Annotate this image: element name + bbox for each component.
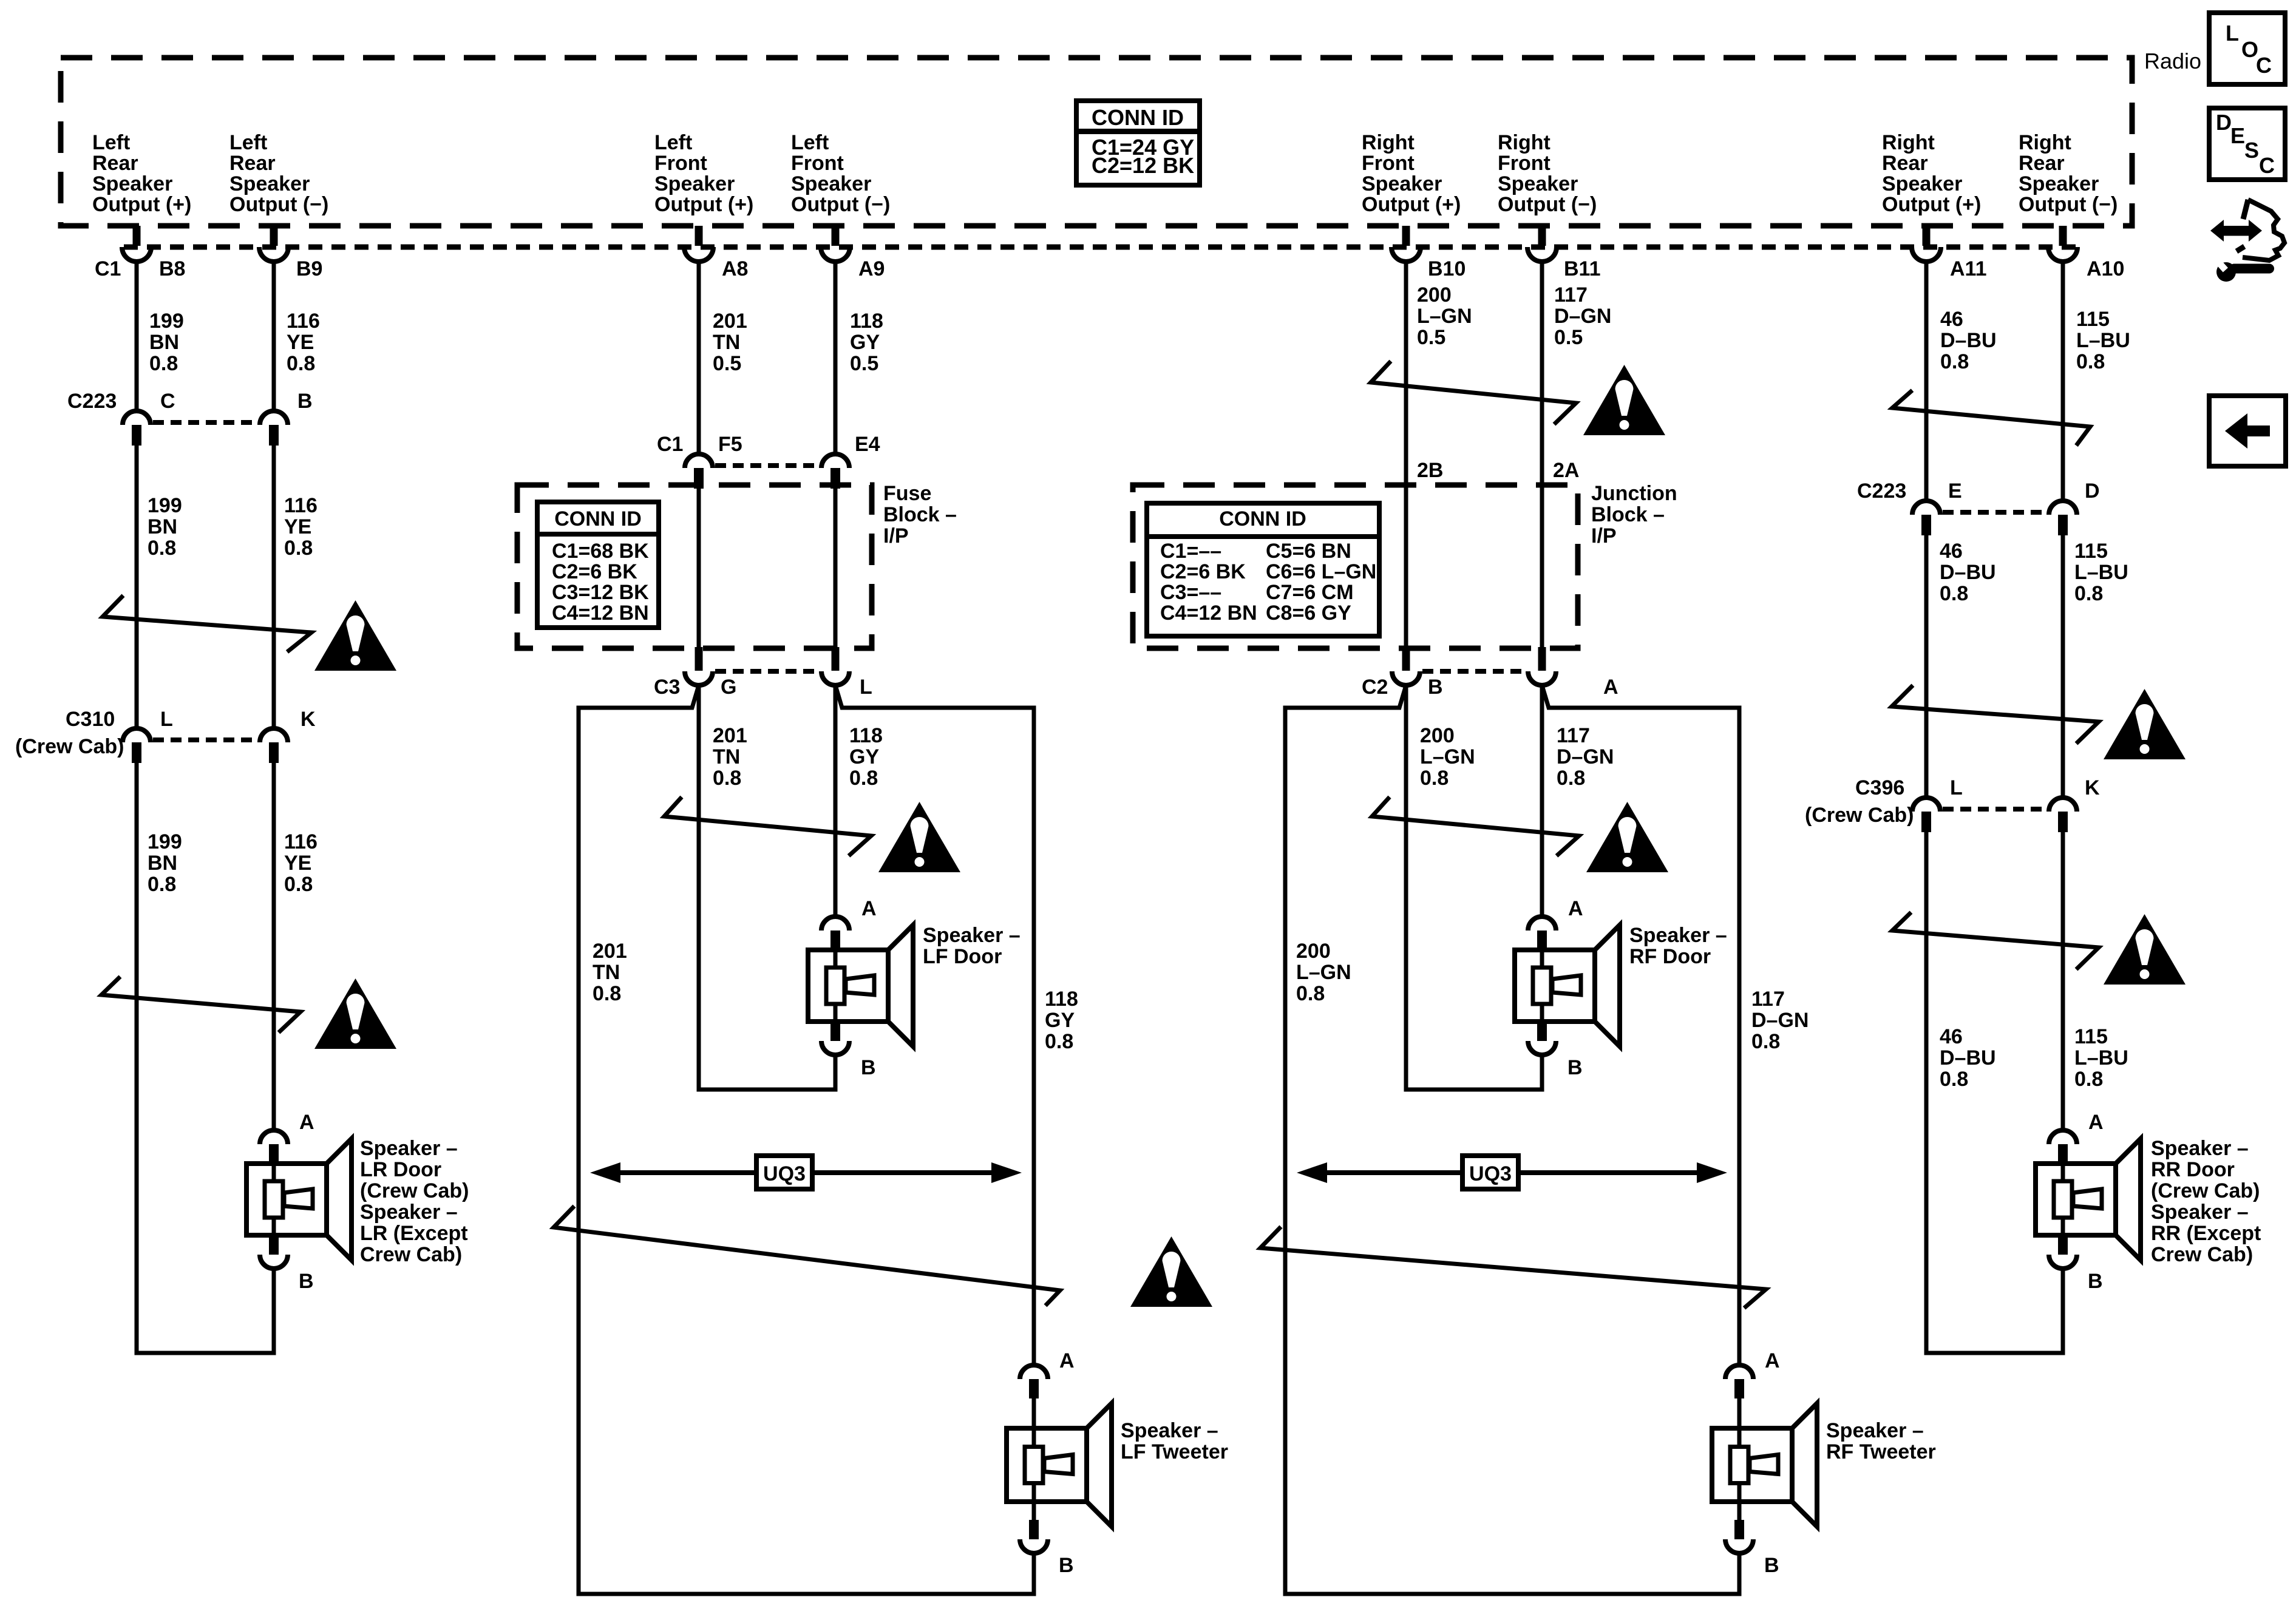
pin letter D bbox=[2085, 480, 2100, 503]
wire label 200 L-GN 0.8 (below junction) bbox=[1420, 724, 1475, 790]
warning triangle (middle bottom) bbox=[1130, 1236, 1212, 1307]
warning triangle (LF column) bbox=[878, 802, 960, 872]
svg-text:117: 117 bbox=[1554, 283, 1588, 307]
radio pin description at x=3173 bbox=[1882, 131, 1981, 216]
wire 46 D-BU (A11) segment 1 bbox=[1924, 262, 1929, 501]
label C310 bbox=[66, 708, 115, 731]
warning triangle (right col lower) bbox=[2104, 914, 2186, 985]
left vertical wire 201 TN branch bbox=[577, 706, 581, 1596]
wire below RF tweeter B bbox=[1737, 1553, 1742, 1594]
svg-text:Block –: Block – bbox=[1591, 503, 1665, 526]
svg-text:C1=––: C1=–– bbox=[1160, 540, 1221, 563]
svg-text:Radio: Radio bbox=[2144, 49, 2201, 73]
speaker RF tweeter text bbox=[1826, 1419, 1936, 1463]
svg-text:F5: F5 bbox=[718, 433, 742, 456]
svg-text:199: 199 bbox=[148, 494, 182, 517]
svg-text:BN: BN bbox=[148, 852, 177, 875]
speaker RF door symbol bbox=[1515, 917, 1620, 1055]
wire 117 D-GN (B11) segment 1 bbox=[1540, 262, 1544, 487]
wire label 200 L-GN 0.5 (B10) bbox=[1417, 283, 1472, 349]
speaker LF door symbol bbox=[808, 917, 913, 1055]
wire 200 L-GN below junction bbox=[1404, 685, 1408, 1090]
svg-text:RF Tweeter: RF Tweeter bbox=[1826, 1440, 1936, 1463]
svg-text:Speaker –: Speaker – bbox=[360, 1137, 458, 1160]
terminal label B (LF door) bbox=[861, 1056, 876, 1079]
svg-text:L–GN: L–GN bbox=[1296, 961, 1351, 984]
svg-text:0.8: 0.8 bbox=[148, 873, 176, 896]
svg-text:Front: Front bbox=[1362, 152, 1415, 175]
svg-text:CONN ID: CONN ID bbox=[1092, 105, 1184, 130]
svg-text:Output (+): Output (+) bbox=[654, 193, 753, 216]
svg-text:C6=6 L–GN: C6=6 L–GN bbox=[1266, 560, 1376, 583]
svg-text:C2: C2 bbox=[1362, 676, 1388, 699]
svg-text:YE: YE bbox=[287, 331, 314, 354]
svg-text:E: E bbox=[1948, 480, 1962, 503]
pin letter C bbox=[160, 390, 175, 413]
svg-text:E4: E4 bbox=[855, 433, 880, 456]
svg-text:0.8: 0.8 bbox=[593, 982, 621, 1005]
svg-text:Speaker –: Speaker – bbox=[1121, 1419, 1218, 1442]
left vertical wire 200 L-GN branch bbox=[1283, 706, 1288, 1596]
svg-text:201: 201 bbox=[593, 940, 627, 963]
svg-text:Left: Left bbox=[92, 131, 130, 154]
radio connector pin B10 bbox=[1391, 226, 1421, 262]
speaker LR text bbox=[360, 1137, 469, 1266]
off-page squiggle (left col lower) bbox=[101, 977, 301, 1032]
pin label B8 bbox=[159, 257, 185, 280]
pin label B10 bbox=[1428, 257, 1466, 280]
svg-text:C3=––: C3=–– bbox=[1160, 581, 1221, 604]
terminal label B (LF tweeter) bbox=[1059, 1554, 1074, 1577]
wire label 116 YE 0.8 (B9 seg1) bbox=[287, 310, 320, 375]
svg-text:2B: 2B bbox=[1417, 459, 1443, 482]
wire below RR speaker B bbox=[2061, 1269, 2065, 1353]
svg-text:B: B bbox=[1059, 1554, 1074, 1577]
wire 200 L-GN (B10) segment 1 bbox=[1404, 262, 1408, 487]
junction bottom connectors (C2: B,A) bbox=[1392, 647, 1556, 685]
svg-text:L–GN: L–GN bbox=[1420, 745, 1475, 768]
wire label 115 L-BU 0.8 (seg2) bbox=[2074, 540, 2128, 605]
wire 46 D-BU segment 2 bbox=[1924, 535, 1929, 798]
svg-text:Right: Right bbox=[1362, 131, 1415, 154]
svg-text:2A: 2A bbox=[1553, 459, 1579, 482]
svg-text:46: 46 bbox=[1940, 308, 1963, 331]
svg-text:0.8: 0.8 bbox=[1420, 767, 1449, 790]
svg-text:Rear: Rear bbox=[2019, 152, 2065, 175]
svg-text:0.5: 0.5 bbox=[850, 352, 878, 375]
svg-text:A: A bbox=[2088, 1111, 2104, 1134]
svg-text:UQ3: UQ3 bbox=[763, 1162, 806, 1185]
svg-text:Front: Front bbox=[654, 152, 707, 175]
svg-text:C7=6 CM: C7=6 CM bbox=[1266, 581, 1354, 604]
svg-text:C1: C1 bbox=[657, 433, 683, 456]
svg-text:I/P: I/P bbox=[883, 524, 909, 547]
pin letter L (C310) bbox=[160, 708, 173, 731]
svg-text:B9: B9 bbox=[296, 257, 322, 280]
svg-text:Speaker: Speaker bbox=[1498, 172, 1578, 195]
radio pin description at x=1376 bbox=[791, 131, 890, 216]
label C3 (fuse bottom) bbox=[654, 676, 680, 699]
svg-text:Speaker: Speaker bbox=[92, 172, 172, 195]
wire below LF door B bbox=[834, 1055, 838, 1090]
svg-text:201: 201 bbox=[713, 310, 747, 333]
svg-text:Output (+): Output (+) bbox=[1362, 193, 1461, 216]
wire 116 YE segment 2 bbox=[272, 446, 276, 728]
fuse block top connectors (C1: F5,E4) bbox=[685, 454, 849, 489]
label C2 (junction bottom) bbox=[1362, 676, 1388, 699]
svg-text:L–GN: L–GN bbox=[1417, 305, 1472, 328]
svg-text:118: 118 bbox=[849, 724, 883, 747]
svg-text:LR Door: LR Door bbox=[360, 1158, 441, 1181]
fuse CONN ID table bbox=[537, 502, 659, 628]
svg-text:Speaker: Speaker bbox=[1362, 172, 1442, 195]
speaker RR door symbol bbox=[2036, 1130, 2141, 1269]
wire 201 TN (A8) segment 1 bbox=[697, 262, 701, 454]
off-page squiggle (right col mid) bbox=[1892, 685, 2099, 744]
wire 199 BN segment 2 bbox=[135, 446, 139, 728]
svg-text:Fuse: Fuse bbox=[883, 482, 931, 505]
radio connector pin A11 bbox=[1912, 226, 1941, 262]
svg-text:C4=12 BN: C4=12 BN bbox=[552, 602, 649, 625]
svg-text:0.8: 0.8 bbox=[713, 767, 741, 790]
svg-text:118: 118 bbox=[850, 310, 883, 333]
svg-text:TN: TN bbox=[713, 331, 740, 354]
pin letter K (C310) bbox=[301, 708, 316, 731]
bottom loop wire (LR) bbox=[135, 1351, 276, 1355]
wire label 201 TN 0.5 (A8) bbox=[713, 310, 747, 375]
wire label 200 L-GN 0.8 (left vertical) bbox=[1296, 940, 1351, 1005]
svg-text:D–BU: D–BU bbox=[1940, 329, 1997, 352]
branch L to right vertical bbox=[835, 685, 1034, 708]
svg-text:C1: C1 bbox=[95, 257, 121, 280]
wire 116 YE (B9) segment 1 bbox=[272, 262, 276, 411]
wire 199 BN segment 3 bbox=[135, 763, 139, 1353]
svg-text:CONN ID: CONN ID bbox=[1219, 507, 1306, 531]
svg-text:A: A bbox=[861, 897, 877, 920]
svg-text:0.8: 0.8 bbox=[1557, 767, 1585, 790]
label (Crew Cab) C396 bbox=[1805, 804, 1914, 827]
pin label A8 bbox=[722, 257, 748, 280]
wire label 46 D-BU 0.8 (seg3) bbox=[1940, 1025, 1996, 1091]
radio box (dashed outline) bbox=[61, 58, 2132, 226]
svg-text:A: A bbox=[1765, 1349, 1780, 1372]
svg-text:UQ3: UQ3 bbox=[1469, 1162, 1512, 1185]
svg-text:Left: Left bbox=[229, 131, 267, 154]
wire label 117 D-GN 0.5 (B11) bbox=[1554, 283, 1611, 349]
wire label 46 D-BU 0.8 (A11 seg1) bbox=[1940, 308, 1997, 373]
speaker RF door text bbox=[1629, 924, 1727, 968]
wire label 117 D-GN 0.8 (right vertical) bbox=[1751, 988, 1809, 1053]
junction CONN ID table bbox=[1147, 503, 1379, 636]
right vertical wire 118 GY branch bbox=[1032, 706, 1036, 1366]
radio pin description at x=2540 bbox=[1498, 131, 1597, 216]
svg-text:TN: TN bbox=[593, 961, 620, 984]
wire label 199 BN 0.8 (seg2) bbox=[148, 494, 182, 560]
svg-text:Speaker –: Speaker – bbox=[1826, 1419, 1924, 1442]
svg-text:Crew Cab): Crew Cab) bbox=[360, 1243, 462, 1266]
svg-text:Speaker –: Speaker – bbox=[1629, 924, 1727, 947]
svg-text:C310: C310 bbox=[66, 708, 115, 731]
pin letter K (C396) bbox=[2085, 776, 2100, 799]
radio connector pin B11 bbox=[1527, 226, 1557, 262]
back-arrow icon box bbox=[2209, 396, 2286, 466]
svg-text:Left: Left bbox=[791, 131, 829, 154]
svg-text:0.8: 0.8 bbox=[2074, 582, 2103, 605]
wire 118 GY below fuse bbox=[834, 685, 838, 917]
off-page squiggle (right col lower) bbox=[1892, 912, 2099, 969]
svg-text:46: 46 bbox=[1940, 540, 1963, 563]
wire below LR speaker B bbox=[272, 1269, 276, 1353]
svg-text:200: 200 bbox=[1420, 724, 1455, 747]
bottom loop wire (RR) bbox=[1924, 1351, 2065, 1355]
terminal label A (RF tweeter) bbox=[1765, 1349, 1780, 1372]
svg-text:C2=6 BK: C2=6 BK bbox=[552, 560, 637, 583]
radio connector id C1 label bbox=[95, 257, 121, 280]
LF loop bottom wire bbox=[577, 1592, 1036, 1596]
terminal label A (LR) bbox=[299, 1111, 314, 1134]
svg-text:Speaker –: Speaker – bbox=[923, 924, 1021, 947]
svg-text:B11: B11 bbox=[1564, 257, 1601, 280]
svg-text:Speaker: Speaker bbox=[654, 172, 735, 195]
svg-text:A11: A11 bbox=[1950, 257, 1987, 280]
wire 116 YE segment 3 bbox=[272, 763, 276, 1130]
wires through fuse block bbox=[699, 486, 835, 647]
svg-text:L: L bbox=[1950, 776, 1963, 799]
svg-text:C: C bbox=[2259, 153, 2275, 178]
terminal label B (RR) bbox=[2088, 1270, 2103, 1293]
svg-text:118: 118 bbox=[1045, 988, 1078, 1011]
svg-text:0.5: 0.5 bbox=[1417, 326, 1445, 349]
radio connector dotted line bbox=[124, 245, 2077, 250]
svg-text:BN: BN bbox=[149, 331, 179, 354]
svg-text:Crew Cab): Crew Cab) bbox=[2151, 1243, 2253, 1266]
svg-text:YE: YE bbox=[284, 515, 311, 538]
svg-text:115: 115 bbox=[2074, 540, 2108, 563]
radio connector pin B9 bbox=[259, 226, 288, 262]
connector C310 (pins L,K) bbox=[123, 728, 288, 763]
branch B to left vertical bbox=[1285, 685, 1406, 708]
pin label A10 bbox=[2087, 257, 2124, 280]
svg-text:Speaker: Speaker bbox=[791, 172, 871, 195]
radio label bbox=[2144, 49, 2201, 73]
svg-text:Output (−): Output (−) bbox=[1498, 193, 1597, 216]
terminal label B (LR) bbox=[299, 1270, 314, 1293]
branch A to right vertical bbox=[1542, 685, 1739, 708]
svg-text:199: 199 bbox=[148, 830, 182, 853]
radio pin description at x=2316 bbox=[1362, 131, 1461, 216]
terminal label B (RF door) bbox=[1567, 1056, 1583, 1079]
svg-text:RR Door: RR Door bbox=[2151, 1158, 2235, 1181]
pin label B9 bbox=[296, 257, 322, 280]
pin letter G bbox=[721, 676, 736, 699]
wire label 117 D-GN 0.8 (below junction) bbox=[1557, 724, 1614, 790]
branch G to left vertical bbox=[579, 685, 699, 708]
wire 115 L-BU (A10) segment 1 bbox=[2061, 262, 2065, 501]
wire label 118 GY 0.8 (right vertical) bbox=[1045, 988, 1078, 1053]
svg-text:0.8: 0.8 bbox=[284, 537, 313, 560]
radio connector pin A9 bbox=[821, 226, 850, 262]
svg-text:D: D bbox=[2085, 480, 2100, 503]
label C1 (fuse) bbox=[657, 433, 683, 456]
svg-text:115: 115 bbox=[2076, 308, 2110, 331]
svg-text:201: 201 bbox=[713, 724, 747, 747]
radio pin description at x=1151 bbox=[654, 131, 753, 216]
svg-text:Output (−): Output (−) bbox=[2019, 193, 2118, 216]
svg-text:GY: GY bbox=[850, 331, 880, 354]
svg-text:199: 199 bbox=[149, 310, 184, 333]
svg-text:0.8: 0.8 bbox=[1940, 1068, 1968, 1091]
svg-text:L–BU: L–BU bbox=[2074, 561, 2128, 584]
svg-text:0.8: 0.8 bbox=[1045, 1030, 1073, 1053]
svg-text:D–BU: D–BU bbox=[1940, 561, 1996, 584]
svg-text:B: B bbox=[1764, 1554, 1779, 1577]
wire label 116 YE 0.8 (seg3) bbox=[284, 830, 318, 896]
off-page squiggle (right col top) bbox=[1892, 390, 2090, 446]
UQ3 option arrow (RF) bbox=[1297, 1156, 1727, 1189]
svg-text:Junction: Junction bbox=[1591, 482, 1677, 505]
fuse block bottom connectors (C3: G,L) bbox=[685, 647, 849, 685]
off-page squiggle (RF column) bbox=[1372, 797, 1579, 856]
svg-text:46: 46 bbox=[1940, 1025, 1963, 1048]
svg-text:Speaker: Speaker bbox=[2019, 172, 2099, 195]
svg-text:Speaker –: Speaker – bbox=[2151, 1201, 2249, 1224]
wire label 46 D-BU 0.8 (seg2) bbox=[1940, 540, 1996, 605]
svg-text:LF Door: LF Door bbox=[923, 945, 1002, 968]
svg-text:0.8: 0.8 bbox=[849, 767, 878, 790]
wire 46 D-BU segment 3 bbox=[1924, 832, 1929, 1353]
junction block label bbox=[1591, 482, 1677, 547]
wire label 118 GY 0.8 (below fuse) bbox=[849, 724, 883, 790]
svg-text:B: B bbox=[1428, 676, 1443, 699]
svg-text:0.5: 0.5 bbox=[1554, 326, 1583, 349]
svg-text:Rear: Rear bbox=[92, 152, 138, 175]
pin letter A (junction) bbox=[1603, 676, 1618, 699]
svg-text:Output (+): Output (+) bbox=[1882, 193, 1981, 216]
svg-text:D–GN: D–GN bbox=[1557, 745, 1614, 768]
svg-text:117: 117 bbox=[1557, 724, 1590, 747]
svg-text:D–GN: D–GN bbox=[1751, 1009, 1809, 1032]
svg-text:Output (−): Output (−) bbox=[229, 193, 328, 216]
svg-text:D–BU: D–BU bbox=[1940, 1046, 1996, 1070]
junction block dashed box bbox=[1133, 485, 1578, 648]
svg-text:Block –: Block – bbox=[883, 503, 957, 526]
wire 118 GY (A9) segment 1 bbox=[834, 262, 838, 454]
svg-text:C4=12 BN: C4=12 BN bbox=[1160, 602, 1257, 625]
pin letter L (fuse) bbox=[860, 676, 872, 699]
wire 115 L-BU segment 3 bbox=[2061, 832, 2065, 1130]
terminal label A (LF door) bbox=[861, 897, 877, 920]
speaker LF door text bbox=[923, 924, 1021, 968]
svg-text:RF Door: RF Door bbox=[1629, 945, 1711, 968]
svg-text:C223: C223 bbox=[1857, 480, 1906, 503]
DESC icon box bbox=[2209, 108, 2285, 180]
svg-text:BN: BN bbox=[148, 515, 177, 538]
svg-text:C2=12 BK: C2=12 BK bbox=[1092, 153, 1194, 178]
svg-text:(Crew Cab): (Crew Cab) bbox=[1805, 804, 1914, 827]
connector C396 (pins L,K) bbox=[1912, 798, 2077, 832]
svg-text:Right: Right bbox=[1498, 131, 1550, 154]
svg-text:0.8: 0.8 bbox=[148, 537, 176, 560]
speaker LR door symbol bbox=[246, 1130, 352, 1269]
svg-text:LR (Except: LR (Except bbox=[360, 1222, 468, 1245]
svg-text:B: B bbox=[297, 390, 313, 413]
svg-text:C3: C3 bbox=[654, 676, 680, 699]
wire label 115 L-BU 0.8 (A10 seg1) bbox=[2076, 308, 2130, 373]
speaker RF tweeter symbol bbox=[1712, 1365, 1817, 1553]
RF loop bottom wire bbox=[1283, 1592, 1742, 1596]
svg-text:CONN ID: CONN ID bbox=[554, 507, 642, 531]
svg-text:RR (Except: RR (Except bbox=[2151, 1222, 2261, 1245]
pin label A9 bbox=[858, 257, 885, 280]
svg-text:0.8: 0.8 bbox=[2076, 350, 2105, 373]
UQ3 option arrow (LF) bbox=[590, 1156, 1022, 1189]
radio connector pin B8 bbox=[122, 226, 151, 262]
svg-text:0.8: 0.8 bbox=[287, 352, 315, 375]
terminal label B (RF tweeter) bbox=[1764, 1554, 1779, 1577]
radio pin description at x=3398 bbox=[2019, 131, 2118, 216]
warning triangle (left col upper) bbox=[314, 600, 396, 671]
speaker LF tweeter symbol bbox=[1007, 1365, 1112, 1553]
wire label 201 TN 0.8 (below fuse) bbox=[713, 724, 747, 790]
pin letter B bbox=[297, 390, 313, 413]
svg-text:0.5: 0.5 bbox=[713, 352, 741, 375]
svg-text:L–BU: L–BU bbox=[2074, 1046, 2128, 1070]
svg-text:I/P: I/P bbox=[1591, 524, 1617, 547]
RF door loop bottom wire bbox=[1404, 1088, 1544, 1092]
svg-text:Output (−): Output (−) bbox=[791, 193, 890, 216]
connector C223 right (pins E,D) bbox=[1912, 501, 2077, 535]
wire label 116 YE 0.8 (seg2) bbox=[284, 494, 318, 560]
svg-text:0.8: 0.8 bbox=[2074, 1068, 2103, 1091]
svg-text:Left: Left bbox=[654, 131, 692, 154]
wire label 118 GY 0.5 (A9) bbox=[850, 310, 883, 375]
svg-text:0.8: 0.8 bbox=[1940, 582, 1968, 605]
off-page squiggle (B10/B11) bbox=[1371, 361, 1576, 424]
pin letter F5 bbox=[718, 433, 742, 456]
svg-text:B: B bbox=[299, 1270, 314, 1293]
svg-text:116: 116 bbox=[284, 494, 318, 517]
svg-text:LF Tweeter: LF Tweeter bbox=[1121, 1440, 1228, 1463]
wire 199 BN (B8) segment 1 bbox=[135, 262, 139, 411]
svg-text:115: 115 bbox=[2074, 1025, 2108, 1048]
component-location wrench icon bbox=[2210, 200, 2284, 282]
pin letter E4 bbox=[855, 433, 880, 456]
svg-text:(Crew Cab): (Crew Cab) bbox=[2151, 1179, 2260, 1202]
svg-text:L: L bbox=[160, 708, 173, 731]
warning triangle (left col lower) bbox=[314, 978, 396, 1049]
label C223 bbox=[67, 390, 117, 413]
pin label B11 bbox=[1564, 257, 1601, 280]
svg-text:200: 200 bbox=[1417, 283, 1452, 307]
svg-text:0.8: 0.8 bbox=[284, 873, 313, 896]
wire label 115 L-BU 0.8 (seg3) bbox=[2074, 1025, 2128, 1091]
svg-text:C2=6 BK: C2=6 BK bbox=[1160, 560, 1246, 583]
svg-text:Front: Front bbox=[1498, 152, 1550, 175]
svg-text:S: S bbox=[2244, 138, 2259, 163]
pin letter E bbox=[1948, 480, 1962, 503]
svg-text:Output (+): Output (+) bbox=[92, 193, 191, 216]
wire 201 TN below fuse bbox=[697, 685, 701, 1090]
fuse block dashed box bbox=[517, 485, 872, 648]
svg-text:L: L bbox=[2226, 21, 2239, 46]
wires through junction block bbox=[1406, 486, 1542, 647]
wire label 201 TN 0.8 (left vertical) bbox=[593, 940, 627, 1005]
svg-text:A: A bbox=[1059, 1349, 1075, 1372]
svg-text:A: A bbox=[1603, 676, 1618, 699]
pin letter B (junction) bbox=[1428, 676, 1443, 699]
wire below LF tweeter B bbox=[1032, 1553, 1036, 1594]
svg-text:C5=6 BN: C5=6 BN bbox=[1266, 540, 1351, 563]
